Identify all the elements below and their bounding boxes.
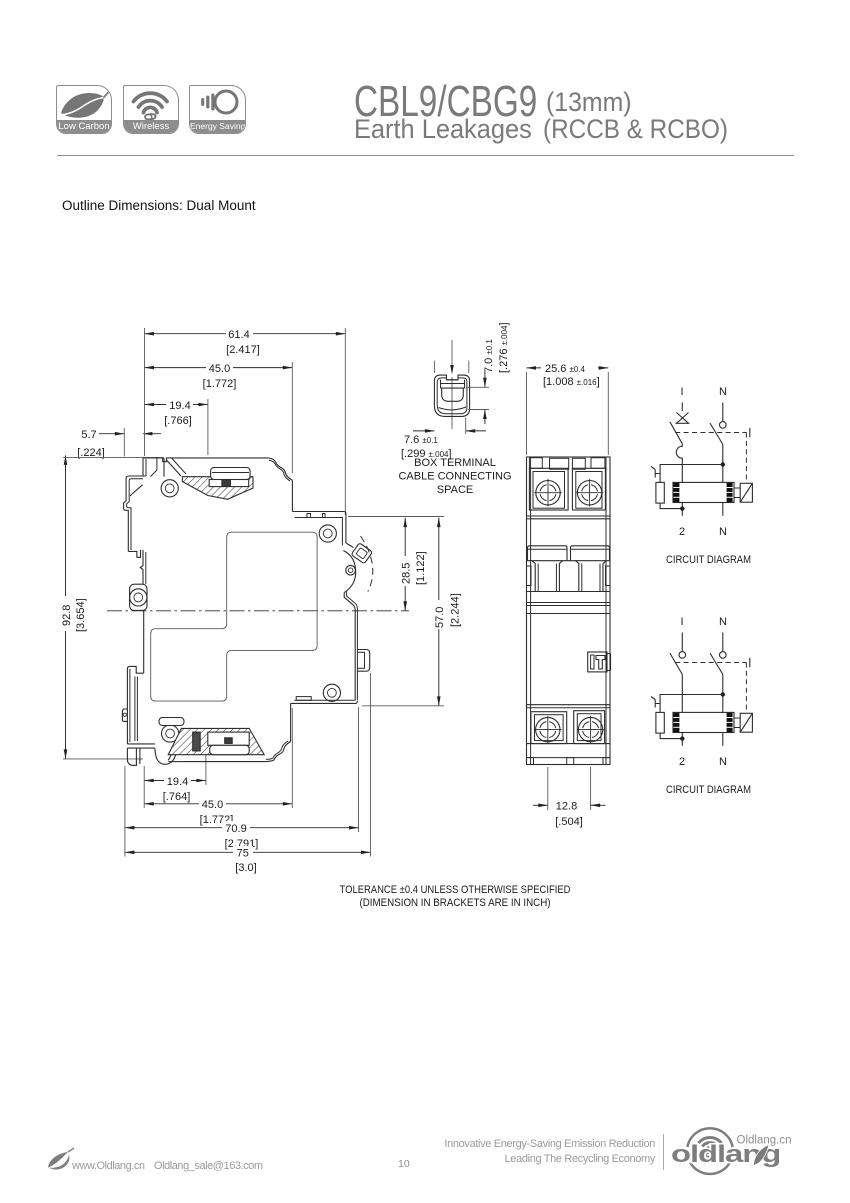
screw bottom-right bbox=[577, 716, 605, 744]
wire 2 bottom bbox=[681, 733, 683, 746]
hatched terminal block bbox=[182, 477, 253, 500]
svg-text:12.8: 12.8 bbox=[556, 801, 577, 813]
svg-text:N: N bbox=[719, 756, 727, 768]
wire 2 bottom bbox=[681, 503, 683, 516]
badge Low Carbon bbox=[56, 85, 112, 134]
wire N bottom bbox=[722, 503, 724, 516]
right side tab bbox=[357, 650, 369, 672]
bottom terminal interior bbox=[159, 718, 264, 755]
left wall below centerline bbox=[143, 610, 145, 673]
extension lines bottom dims bbox=[125, 673, 371, 857]
junction dot on N bbox=[721, 462, 725, 466]
bottom hump left slope and scoop bbox=[155, 736, 183, 764]
dimension 61.4 [2.417] bbox=[145, 327, 346, 356]
svg-text:I: I bbox=[680, 386, 683, 398]
test button symbol bbox=[651, 467, 660, 478]
clamp inner U bbox=[442, 388, 464, 401]
test button symbol bbox=[651, 697, 660, 708]
handle recess arc + ring bbox=[343, 551, 355, 593]
dimension 92.8 [3.654] vertical bbox=[61, 455, 87, 759]
svg-text:CIRCUIT DIAGRAM: CIRCUIT DIAGRAM bbox=[666, 784, 751, 796]
dimension 28.5 [1.122] vertical bbox=[401, 518, 428, 611]
svg-text:SPACE: SPACE bbox=[437, 484, 473, 496]
clamp inner strip bbox=[441, 384, 465, 389]
bottom hump right scallops bbox=[183, 703, 291, 761]
test resistor bbox=[656, 712, 664, 733]
dimension 45.0 [1.772] top bbox=[145, 361, 293, 390]
clamp bottom arc bbox=[439, 407, 467, 410]
svg-text:[1.008 ±.016]: [1.008 ±.016] bbox=[543, 376, 600, 388]
front view body outline bbox=[527, 457, 611, 765]
front top terminal band bbox=[527, 458, 611, 519]
dimension 25.6 [1.008] bbox=[527, 362, 609, 456]
svg-text:[.504]: [.504] bbox=[555, 816, 583, 828]
screw bottom-left bbox=[534, 716, 562, 744]
dimension 70.9 [2.791] bbox=[125, 821, 359, 850]
clamp plate bbox=[211, 468, 251, 480]
test wire upper bbox=[660, 695, 723, 713]
upper DIN hook bbox=[124, 476, 146, 557]
label box terminal bbox=[398, 457, 511, 496]
trip lever tick bbox=[749, 428, 751, 437]
footer leaf icon bbox=[46, 1147, 78, 1173]
wire N top bbox=[722, 403, 724, 422]
svg-text:70.9: 70.9 bbox=[225, 823, 246, 835]
header rule bbox=[57, 155, 794, 156]
top terminal interior bbox=[151, 458, 254, 499]
box terminal clamp outline bbox=[434, 375, 469, 416]
wire N top bbox=[722, 633, 724, 652]
test wire lower bbox=[660, 733, 682, 739]
dimension 12.8 [.504] bbox=[533, 767, 606, 828]
svg-text:BOX TERMINAL: BOX TERMINAL bbox=[414, 457, 496, 469]
svg-text:45.0: 45.0 bbox=[209, 363, 230, 375]
rivet top-right bbox=[319, 525, 336, 542]
toroid winding right bbox=[727, 713, 733, 732]
svg-text:75: 75 bbox=[237, 848, 249, 860]
pivot circle pole N bbox=[720, 422, 727, 429]
dimension 45.0 [1.772] bottom bbox=[144, 797, 292, 826]
svg-text:[3.0]: [3.0] bbox=[235, 862, 256, 874]
footer logo bbox=[668, 1118, 838, 1180]
centerline bbox=[107, 610, 409, 612]
toroid core bbox=[673, 712, 734, 732]
coupling dashed link bbox=[675, 663, 746, 714]
svg-text:CIRCUIT DIAGRAM: CIRCUIT DIAGRAM bbox=[666, 554, 751, 566]
wire I top bbox=[681, 403, 683, 412]
svg-text:19.4: 19.4 bbox=[167, 776, 188, 788]
svg-text:N: N bbox=[719, 526, 727, 538]
tolerance note bbox=[340, 884, 571, 909]
junction dot on N bbox=[721, 692, 725, 696]
svg-text:N: N bbox=[719, 386, 727, 398]
wire I top bbox=[681, 633, 683, 652]
title bbox=[354, 80, 537, 124]
svg-text:TOLERANCE ±0.4 UNLESS OTHERWIS: TOLERANCE ±0.4 UNLESS OTHERWISE SPECIFIE… bbox=[340, 884, 571, 896]
badge Energy Saving bbox=[189, 85, 246, 134]
dimension 75 [3.0] bbox=[125, 846, 371, 874]
rivet bottom-right bbox=[323, 684, 340, 701]
right wall jog to lower right wall bbox=[344, 592, 357, 701]
svg-text:92.8: 92.8 bbox=[61, 605, 73, 626]
trip coil pole I bbox=[676, 444, 682, 483]
switch blade pole N bbox=[710, 423, 723, 444]
svg-text:[1.122]: [1.122] bbox=[415, 551, 427, 585]
screw top-right bbox=[576, 479, 604, 507]
svg-text:61.4: 61.4 bbox=[228, 329, 249, 341]
svg-text:28.5: 28.5 bbox=[401, 563, 413, 584]
dimension 19.4 [.764] bottom bbox=[144, 774, 206, 803]
dimension 7.6 [.299] bbox=[401, 418, 486, 461]
toroid winding left bbox=[673, 713, 679, 732]
svg-text:[2.244]: [2.244] bbox=[450, 593, 462, 627]
test/trip relay box bbox=[740, 483, 752, 502]
dimension 19.4 [.766] top bbox=[145, 398, 208, 427]
dimension 7.0 [.276] bbox=[466, 322, 510, 424]
svg-text:[.766]: [.766] bbox=[164, 415, 192, 427]
pivot circle pole N bbox=[720, 652, 727, 659]
svg-text:[3.654]: [3.654] bbox=[75, 598, 87, 632]
test resistor bbox=[656, 482, 664, 503]
toroid winding left bbox=[673, 483, 679, 502]
test wire lower bbox=[660, 503, 682, 509]
clamp box bbox=[209, 480, 249, 487]
trip lever tick bbox=[749, 658, 751, 667]
test/trip relay box bbox=[740, 713, 752, 732]
wire N to toroid bbox=[722, 674, 724, 712]
coupling dashed link bbox=[675, 433, 746, 484]
section label bbox=[62, 198, 256, 213]
svg-text:2: 2 bbox=[679, 756, 685, 768]
top edge with notch bbox=[143, 458, 268, 462]
svg-text:[.764]: [.764] bbox=[163, 791, 191, 803]
handle pivot block bbox=[346, 543, 373, 564]
relay wires bbox=[734, 718, 740, 728]
extension lines right dims bbox=[348, 517, 444, 706]
svg-text:45.0: 45.0 bbox=[202, 799, 223, 811]
svg-text:[.276 ±.004]: [.276 ±.004] bbox=[498, 322, 510, 373]
switch blade pole I bbox=[670, 422, 682, 444]
rivet top-left bbox=[161, 480, 178, 497]
lower DIN slide clip bbox=[122, 666, 154, 765]
svg-text:I: I bbox=[680, 616, 683, 628]
left wall top bbox=[143, 458, 146, 476]
wire I to toroid bbox=[681, 674, 683, 712]
svg-text:25.6 ±0.4: 25.6 ±0.4 bbox=[545, 363, 586, 375]
front handle band bbox=[527, 546, 611, 592]
bottom right ledge (double, notch) bbox=[291, 697, 358, 704]
svg-text:[2.417]: [2.417] bbox=[226, 344, 260, 356]
left pad with circle bbox=[130, 584, 147, 610]
toroid core bbox=[673, 482, 734, 502]
pivot circle pole I bbox=[679, 652, 686, 659]
wire N to toroid bbox=[722, 444, 724, 482]
toroid winding right bbox=[727, 483, 733, 502]
handle travel arc (dashed) bbox=[361, 536, 373, 592]
svg-text:2: 2 bbox=[679, 526, 685, 538]
svg-text:N: N bbox=[719, 616, 727, 628]
rivet bottom-left bbox=[162, 725, 179, 742]
svg-text:5.7: 5.7 bbox=[81, 429, 96, 441]
svg-text:(DIMENSION IN BRACKETS ARE IN: (DIMENSION IN BRACKETS ARE IN INCH) bbox=[360, 897, 551, 909]
dimension 5.7 [.224] bbox=[77, 429, 161, 459]
extension lines top dims bbox=[63, 328, 345, 759]
screw top-left bbox=[534, 479, 562, 507]
test wire upper bbox=[660, 465, 723, 483]
dimension 57.0 [2.244] vertical bbox=[434, 518, 462, 706]
clip foot bbox=[127, 744, 154, 748]
junction dot on 2 bbox=[680, 736, 684, 740]
relay wires bbox=[734, 488, 740, 498]
front bottom terminal band bbox=[527, 705, 611, 765]
clip left bump bbox=[122, 709, 127, 721]
wire N bottom bbox=[722, 733, 724, 746]
left wall middle with zigzag bbox=[140, 550, 146, 584]
test button bbox=[588, 652, 611, 672]
svg-text:19.4: 19.4 bbox=[169, 400, 190, 412]
front mid lines bbox=[527, 603, 611, 614]
svg-text:7.0 ±0.1: 7.0 ±0.1 bbox=[483, 339, 495, 373]
svg-text:CABLE CONNECTING: CABLE CONNECTING bbox=[398, 471, 511, 483]
inner stepped panel bbox=[151, 532, 317, 701]
switch blade pole I bbox=[670, 653, 682, 674]
badge Wireless bbox=[123, 85, 179, 134]
switch blade pole N bbox=[710, 653, 723, 674]
top hump right scallops bbox=[268, 458, 292, 512]
junction dot on 2 bbox=[680, 506, 684, 510]
breaker contact X on pole I bbox=[676, 413, 690, 424]
detail axis line bbox=[434, 340, 468, 429]
svg-text:7.6 ±0.1: 7.6 ±0.1 bbox=[404, 434, 438, 446]
top right ledge (double with notches) bbox=[292, 512, 346, 546]
svg-text:57.0: 57.0 bbox=[434, 607, 446, 628]
svg-text:[1.772]: [1.772] bbox=[203, 378, 237, 390]
